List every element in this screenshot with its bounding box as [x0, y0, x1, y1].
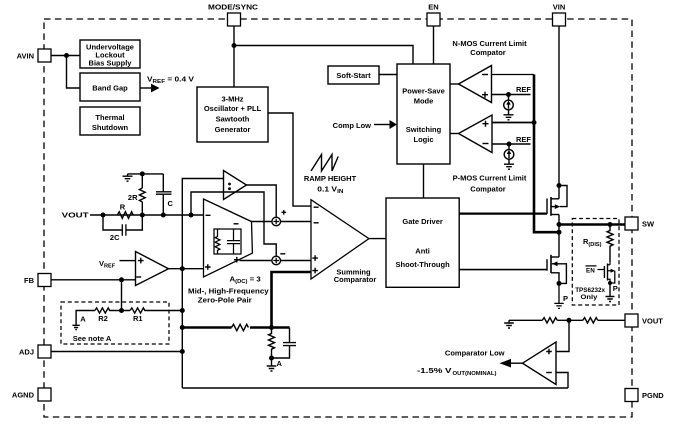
svg-text:Logic: Logic — [414, 135, 434, 144]
node main 3 — [161, 213, 166, 218]
wire AVIN to UVLO — [51, 55, 80, 57]
svg-text:Oscillator + PLL: Oscillator + PLL — [204, 104, 262, 113]
resistor feedback shunt — [269, 328, 275, 359]
ground feedback A — [267, 358, 277, 371]
svg-text:TPS6232x: TPS6232x — [575, 287, 605, 294]
resistor 2R — [128, 174, 145, 215]
block Thermal Shutdown — [80, 107, 140, 135]
wire P-MOS comparator minus input to REF — [492, 143, 531, 145]
svg-text:Thermal: Thermal — [95, 113, 124, 122]
wire P-MOS comparator plus input to bus — [492, 122, 534, 124]
capacitor C — [156, 174, 174, 215]
svg-text:Shoot-Through: Shoot-Through — [396, 260, 451, 269]
svg-text:PGND: PGND — [642, 391, 664, 400]
svg-text:Band Gap: Band Gap — [92, 84, 128, 93]
svg-text:AVIN: AVIN — [17, 51, 34, 60]
wire thick feedback right — [250, 326, 290, 328]
wire thick feedback to summing comparator — [272, 272, 312, 328]
pin PGND — [625, 389, 664, 402]
wire VREF comparator output to error amp plus — [169, 268, 204, 270]
svg-text:Comp Low: Comp Low — [333, 121, 371, 130]
svg-text:Mid-, High-Frequency: Mid-, High-Frequency — [188, 287, 269, 296]
wire N-MOS comparator minus input to bus — [492, 74, 535, 76]
svg-text:2C: 2C — [110, 233, 120, 242]
wire FB to comparator minus — [51, 279, 136, 281]
pin VIN — [553, 3, 566, 26]
svg-text:N-MOS Current Limit: N-MOS Current Limit — [452, 39, 527, 48]
wire buffer input from left bus — [182, 179, 223, 389]
node feedback RC bottom — [269, 356, 274, 361]
node left bus error amp plus — [180, 266, 185, 271]
svg-text:C: C — [168, 199, 174, 208]
resistor divider 1 — [542, 318, 557, 323]
node divider tap — [567, 318, 572, 323]
node main 1 — [101, 213, 106, 218]
wire divider to VOUT pin — [598, 319, 625, 321]
current source REF 1 — [504, 95, 514, 115]
node main 2 — [140, 213, 145, 218]
ground REF 1 — [504, 115, 514, 120]
node bus SW joint — [557, 230, 562, 235]
svg-text:EN: EN — [428, 3, 438, 12]
label Summing Comparator — [334, 267, 377, 284]
svg-text:ADJ: ADJ — [19, 347, 34, 356]
svg-text:VIN: VIN — [553, 3, 566, 12]
svg-text:P: P — [613, 284, 618, 293]
wire divider tap to comparator low plus — [556, 320, 569, 351]
node R2 R1 junction — [119, 308, 124, 313]
wire summing node 2 to comparator — [281, 260, 312, 262]
wire EN to Power-Save Mode — [433, 26, 435, 64]
label TPS6232x Only — [575, 287, 605, 301]
wire AVIN junction to Band Gap — [67, 56, 81, 89]
block Band Gap — [80, 73, 140, 101]
wire FB tap down to R2 R1 junction — [121, 280, 123, 311]
svg-text:Anti: Anti — [415, 247, 430, 256]
wire VIN down to P-MOS source — [558, 26, 560, 186]
node VIN PMOS source — [557, 183, 562, 188]
node Q3 source — [608, 281, 612, 285]
wire divider left — [509, 319, 542, 321]
wire switching logic to gate driver — [423, 164, 425, 198]
block Soft-Start — [328, 66, 379, 84]
block Power-Save Mode / Switching Logic — [397, 64, 450, 164]
pin EN — [427, 3, 440, 26]
wire comparator low minus — [556, 373, 568, 389]
pin FB — [24, 274, 51, 287]
node main 4 — [189, 213, 194, 218]
op-amp N-MOS current limit comparator — [450, 66, 492, 103]
svg-text:Bias Supply: Bias Supply — [89, 58, 133, 67]
pin SW — [625, 217, 655, 230]
label EN bar — [586, 266, 605, 275]
svg-text:Gate Driver: Gate Driver — [402, 217, 443, 226]
pin MODE/SYNC — [208, 3, 259, 26]
node NMOS source — [557, 281, 562, 286]
svg-text:Power-Save: Power-Save — [402, 87, 445, 96]
op-amp VREF comparator — [136, 252, 169, 286]
svg-text:P: P — [563, 294, 568, 303]
ground top RC — [123, 174, 133, 181]
svg-text:Soft-Start: Soft-Start — [336, 71, 371, 80]
dashed device boundary — [44, 19, 632, 417]
svg-text:P-MOS Current Limit: P-MOS Current Limit — [453, 174, 527, 183]
ground Q3 — [606, 283, 615, 302]
node REF 2 — [507, 142, 512, 147]
wire error amp bottom output — [240, 260, 272, 262]
label N-MOS Current Limit Compator — [452, 39, 527, 57]
ground power NMOS — [554, 283, 563, 308]
node feedback RC top — [269, 325, 274, 330]
wire Comp Low input — [374, 124, 390, 126]
pin AVIN — [17, 49, 51, 62]
arrow comparator low output — [500, 359, 512, 368]
block Gate Driver Anti Shoot-Through — [386, 198, 459, 287]
svg-text:R2: R2 — [98, 314, 108, 323]
transistor Q3 discharge N-MOS — [604, 262, 615, 283]
svg-text:REF: REF — [516, 85, 531, 94]
node SW PMOS drain — [557, 222, 562, 227]
wire summing node 1 to comparator — [281, 221, 312, 223]
wire VREF to comparator — [120, 260, 136, 262]
resistor-capacitor internal zero-pole network — [214, 229, 241, 254]
ground note A — [72, 311, 94, 330]
block 3-MHz Oscillator + PLL Sawtooth Generator — [197, 87, 268, 142]
op-amp feedforward buffer — [224, 171, 247, 200]
node AVIN junction — [64, 53, 69, 58]
wire top RC — [128, 173, 164, 175]
svg-text:Shutdown: Shutdown — [92, 123, 129, 132]
svg-text:VOUT: VOUT — [62, 211, 89, 220]
block Undervoltage Lockout Bias Supply — [80, 40, 140, 68]
svg-text:MODE/SYNC: MODE/SYNC — [208, 3, 259, 12]
capacitor feedback shunt — [272, 328, 297, 359]
resistor R2 — [95, 308, 130, 313]
wire Soft-Start to Power-Save — [379, 74, 397, 76]
resistor R1 — [130, 308, 182, 313]
wire MODE/SYNC down to oscillator — [233, 26, 235, 87]
op-amp error amplifier — [204, 199, 253, 277]
node FB divider tap — [119, 277, 124, 282]
wire summing comparator to gate driver — [369, 238, 386, 240]
resistor feedback — [232, 324, 249, 330]
svg-text:-1.5% V: -1.5% V — [417, 366, 452, 375]
transistor Q2 N-MOS — [547, 255, 566, 284]
svg-text:AGND: AGND — [12, 390, 35, 399]
svg-text:Mode: Mode — [414, 97, 434, 106]
wire N-MOS comparator plus input to REF — [492, 94, 531, 96]
dashed box TPS6232x only — [572, 219, 619, 306]
label P-MOS Current Limit Compator — [453, 174, 527, 194]
pin ADJ — [19, 345, 51, 358]
svg-text:FB: FB — [24, 276, 35, 285]
svg-text:EN: EN — [586, 268, 595, 275]
svg-text:Zero-Pole Pair: Zero-Pole Pair — [198, 296, 252, 305]
ground output divider — [504, 320, 514, 328]
svg-text:Sawtooth: Sawtooth — [216, 115, 250, 124]
svg-text:R: R — [120, 203, 126, 212]
node MODE/SYNC branch — [232, 43, 237, 48]
svg-text:Comparator Low: Comparator Low — [445, 349, 505, 358]
dashed note A box — [61, 302, 169, 344]
summing node 1 — [272, 210, 286, 226]
node REF 1 — [506, 92, 511, 97]
svg-text:Generator: Generator — [215, 125, 251, 134]
svg-text:Comparator: Comparator — [334, 275, 377, 284]
svg-text:R1: R1 — [133, 314, 143, 323]
node left bus ADJ — [180, 349, 185, 354]
arrow Comp Low into Switching Logic — [390, 120, 398, 129]
capacitor 2C — [103, 215, 142, 242]
svg-text:RAMP HEIGHT: RAMP HEIGHT — [304, 174, 357, 183]
wire P-MOS gate drive — [459, 213, 547, 215]
arrow VREF output — [151, 84, 160, 93]
node top RC — [140, 171, 145, 176]
node left bus R1 — [180, 308, 185, 313]
svg-text:REF: REF — [516, 135, 531, 144]
ground REF 2 — [504, 164, 514, 169]
svg-text:3-MHz: 3-MHz — [221, 95, 243, 104]
wire comparator low reference line — [182, 387, 568, 389]
current source REF 2 — [504, 144, 514, 164]
resistor RDIS — [607, 225, 613, 263]
op-amp comparator low — [523, 342, 557, 385]
wire N-MOS gate drive — [459, 269, 547, 271]
svg-text:SW: SW — [642, 220, 655, 229]
wire oscillator to summing comparator — [268, 113, 311, 206]
op-amp P-MOS current limit comparator — [450, 115, 492, 153]
wire VOUT main — [90, 214, 203, 216]
svg-text:See note A: See note A — [73, 334, 112, 343]
wire Band Gap output — [140, 87, 151, 89]
sawtooth ramp icon — [311, 155, 338, 172]
svg-text:2R: 2R — [128, 193, 138, 202]
svg-text:OUT(NOMINAL): OUT(NOMINAL) — [453, 371, 497, 377]
transistor Q1 P-MOS — [547, 186, 567, 258]
wire comparator low output — [511, 362, 523, 364]
pin AGND — [12, 388, 51, 401]
svg-text:Compator: Compator — [470, 48, 505, 57]
node bus P-MOS tap — [532, 120, 537, 125]
svg-text:Only: Only — [581, 294, 598, 301]
resistor divider 2 — [583, 318, 598, 323]
wire error amp top output — [252, 221, 272, 223]
svg-text:Compator: Compator — [470, 185, 505, 194]
wire ADJ to left bus — [51, 351, 182, 353]
wire SW thick — [559, 223, 625, 226]
op-amp summing comparator — [311, 200, 369, 279]
node SW Rdis tap — [608, 222, 613, 227]
wire current sense bus — [534, 75, 559, 233]
node left bus feedback — [180, 325, 185, 330]
summing node 2 — [272, 254, 285, 265]
pin VOUT right — [625, 314, 663, 327]
wire buffer output to summing node 1 — [247, 185, 277, 217]
svg-text:VOUT: VOUT — [642, 316, 663, 325]
wire divider middle — [557, 319, 583, 321]
resistor R — [117, 212, 133, 219]
wire thick feedback left — [182, 326, 231, 328]
wire inner feed to summing node 2 — [191, 192, 276, 256]
wire MODE/SYNC to Power-Save Mode — [234, 46, 413, 65]
svg-text:Switching: Switching — [406, 125, 442, 134]
svg-text:A: A — [80, 315, 86, 324]
svg-text:A: A — [277, 359, 283, 368]
